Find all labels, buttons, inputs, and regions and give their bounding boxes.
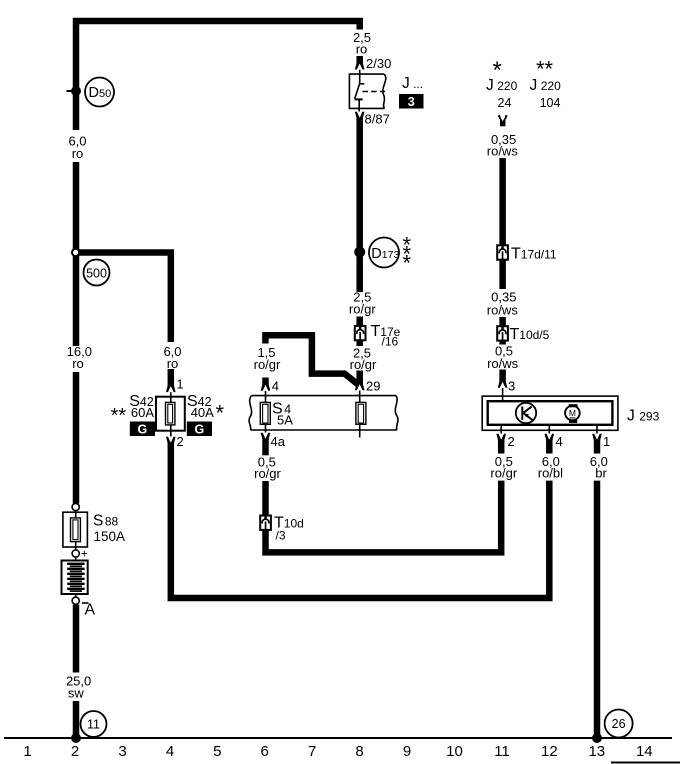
svg-text:3: 3: [508, 378, 515, 393]
svg-text:ro/gr: ro/gr: [349, 301, 376, 316]
svg-text:**: **: [111, 405, 127, 427]
svg-text:5A: 5A: [277, 413, 293, 428]
svg-text:26: 26: [612, 717, 626, 731]
svg-text:J220: J220: [486, 77, 518, 94]
svg-text:D173: D173: [371, 246, 399, 262]
svg-text:3: 3: [118, 743, 126, 760]
svg-text:1: 1: [603, 434, 610, 449]
svg-text:*: *: [403, 251, 412, 276]
svg-text:4a: 4a: [271, 434, 286, 449]
svg-text:2: 2: [177, 434, 184, 449]
svg-text:6: 6: [261, 743, 269, 760]
svg-text:60A: 60A: [131, 405, 154, 420]
svg-text:8: 8: [355, 743, 363, 760]
svg-text:13: 13: [588, 743, 605, 760]
svg-text:**: **: [536, 57, 554, 82]
svg-text:4: 4: [166, 743, 174, 760]
svg-text:J220: J220: [530, 77, 562, 94]
svg-text:3: 3: [408, 95, 415, 109]
svg-text:4: 4: [556, 434, 563, 449]
svg-text:S88: S88: [93, 513, 119, 530]
svg-text:ro/gr: ro/gr: [254, 466, 281, 481]
svg-text:29: 29: [366, 379, 380, 394]
svg-text:8/87: 8/87: [365, 112, 390, 127]
svg-text:G: G: [195, 423, 205, 437]
svg-text:2: 2: [71, 743, 79, 760]
svg-text:D50: D50: [89, 85, 112, 101]
svg-text:M: M: [569, 408, 576, 418]
svg-text:ro/ws: ro/ws: [487, 356, 519, 371]
svg-text:ro: ro: [167, 356, 179, 371]
svg-text:5: 5: [213, 743, 221, 760]
svg-text:T10d/5: T10d/5: [510, 326, 550, 343]
svg-text:1: 1: [23, 743, 31, 760]
svg-text:11: 11: [87, 718, 100, 732]
svg-text:104: 104: [540, 96, 561, 110]
svg-text:ro/gr: ro/gr: [350, 357, 377, 372]
svg-text:ro/bl: ro/bl: [538, 465, 563, 480]
svg-text:12: 12: [541, 743, 558, 760]
svg-text:sw: sw: [68, 686, 85, 701]
svg-text:11: 11: [494, 743, 510, 760]
svg-text:2: 2: [508, 434, 515, 449]
svg-text:ro/ws: ro/ws: [487, 303, 519, 318]
svg-text:G: G: [138, 423, 148, 437]
svg-text:1: 1: [176, 377, 183, 392]
svg-text:br: br: [595, 465, 607, 480]
svg-text:ro: ro: [72, 146, 84, 161]
svg-text:7: 7: [308, 743, 316, 760]
svg-text:500: 500: [86, 266, 107, 280]
svg-text:T17d/11: T17d/11: [511, 246, 557, 263]
svg-text:24: 24: [498, 96, 512, 110]
svg-text:+: +: [81, 547, 88, 561]
svg-text:150A: 150A: [94, 529, 126, 544]
svg-text:9: 9: [403, 743, 411, 760]
svg-text:/3: /3: [276, 529, 286, 543]
svg-text:4: 4: [272, 378, 279, 393]
svg-text:ro/gr: ro/gr: [254, 357, 281, 372]
svg-text:40A: 40A: [191, 405, 214, 420]
svg-text:ro: ro: [72, 356, 84, 371]
svg-text:J ...: J ...: [402, 75, 423, 92]
svg-text:*: *: [216, 401, 225, 426]
svg-text:ro/gr: ro/gr: [490, 465, 517, 480]
svg-text:/16: /16: [382, 335, 399, 349]
svg-text:10: 10: [446, 743, 463, 760]
svg-text:2/30: 2/30: [366, 56, 391, 71]
svg-text:14: 14: [636, 743, 653, 760]
svg-text:ro: ro: [356, 42, 368, 57]
svg-text:A: A: [85, 602, 96, 619]
svg-text:ro/ws: ro/ws: [487, 143, 519, 158]
svg-text:J293: J293: [627, 408, 660, 425]
